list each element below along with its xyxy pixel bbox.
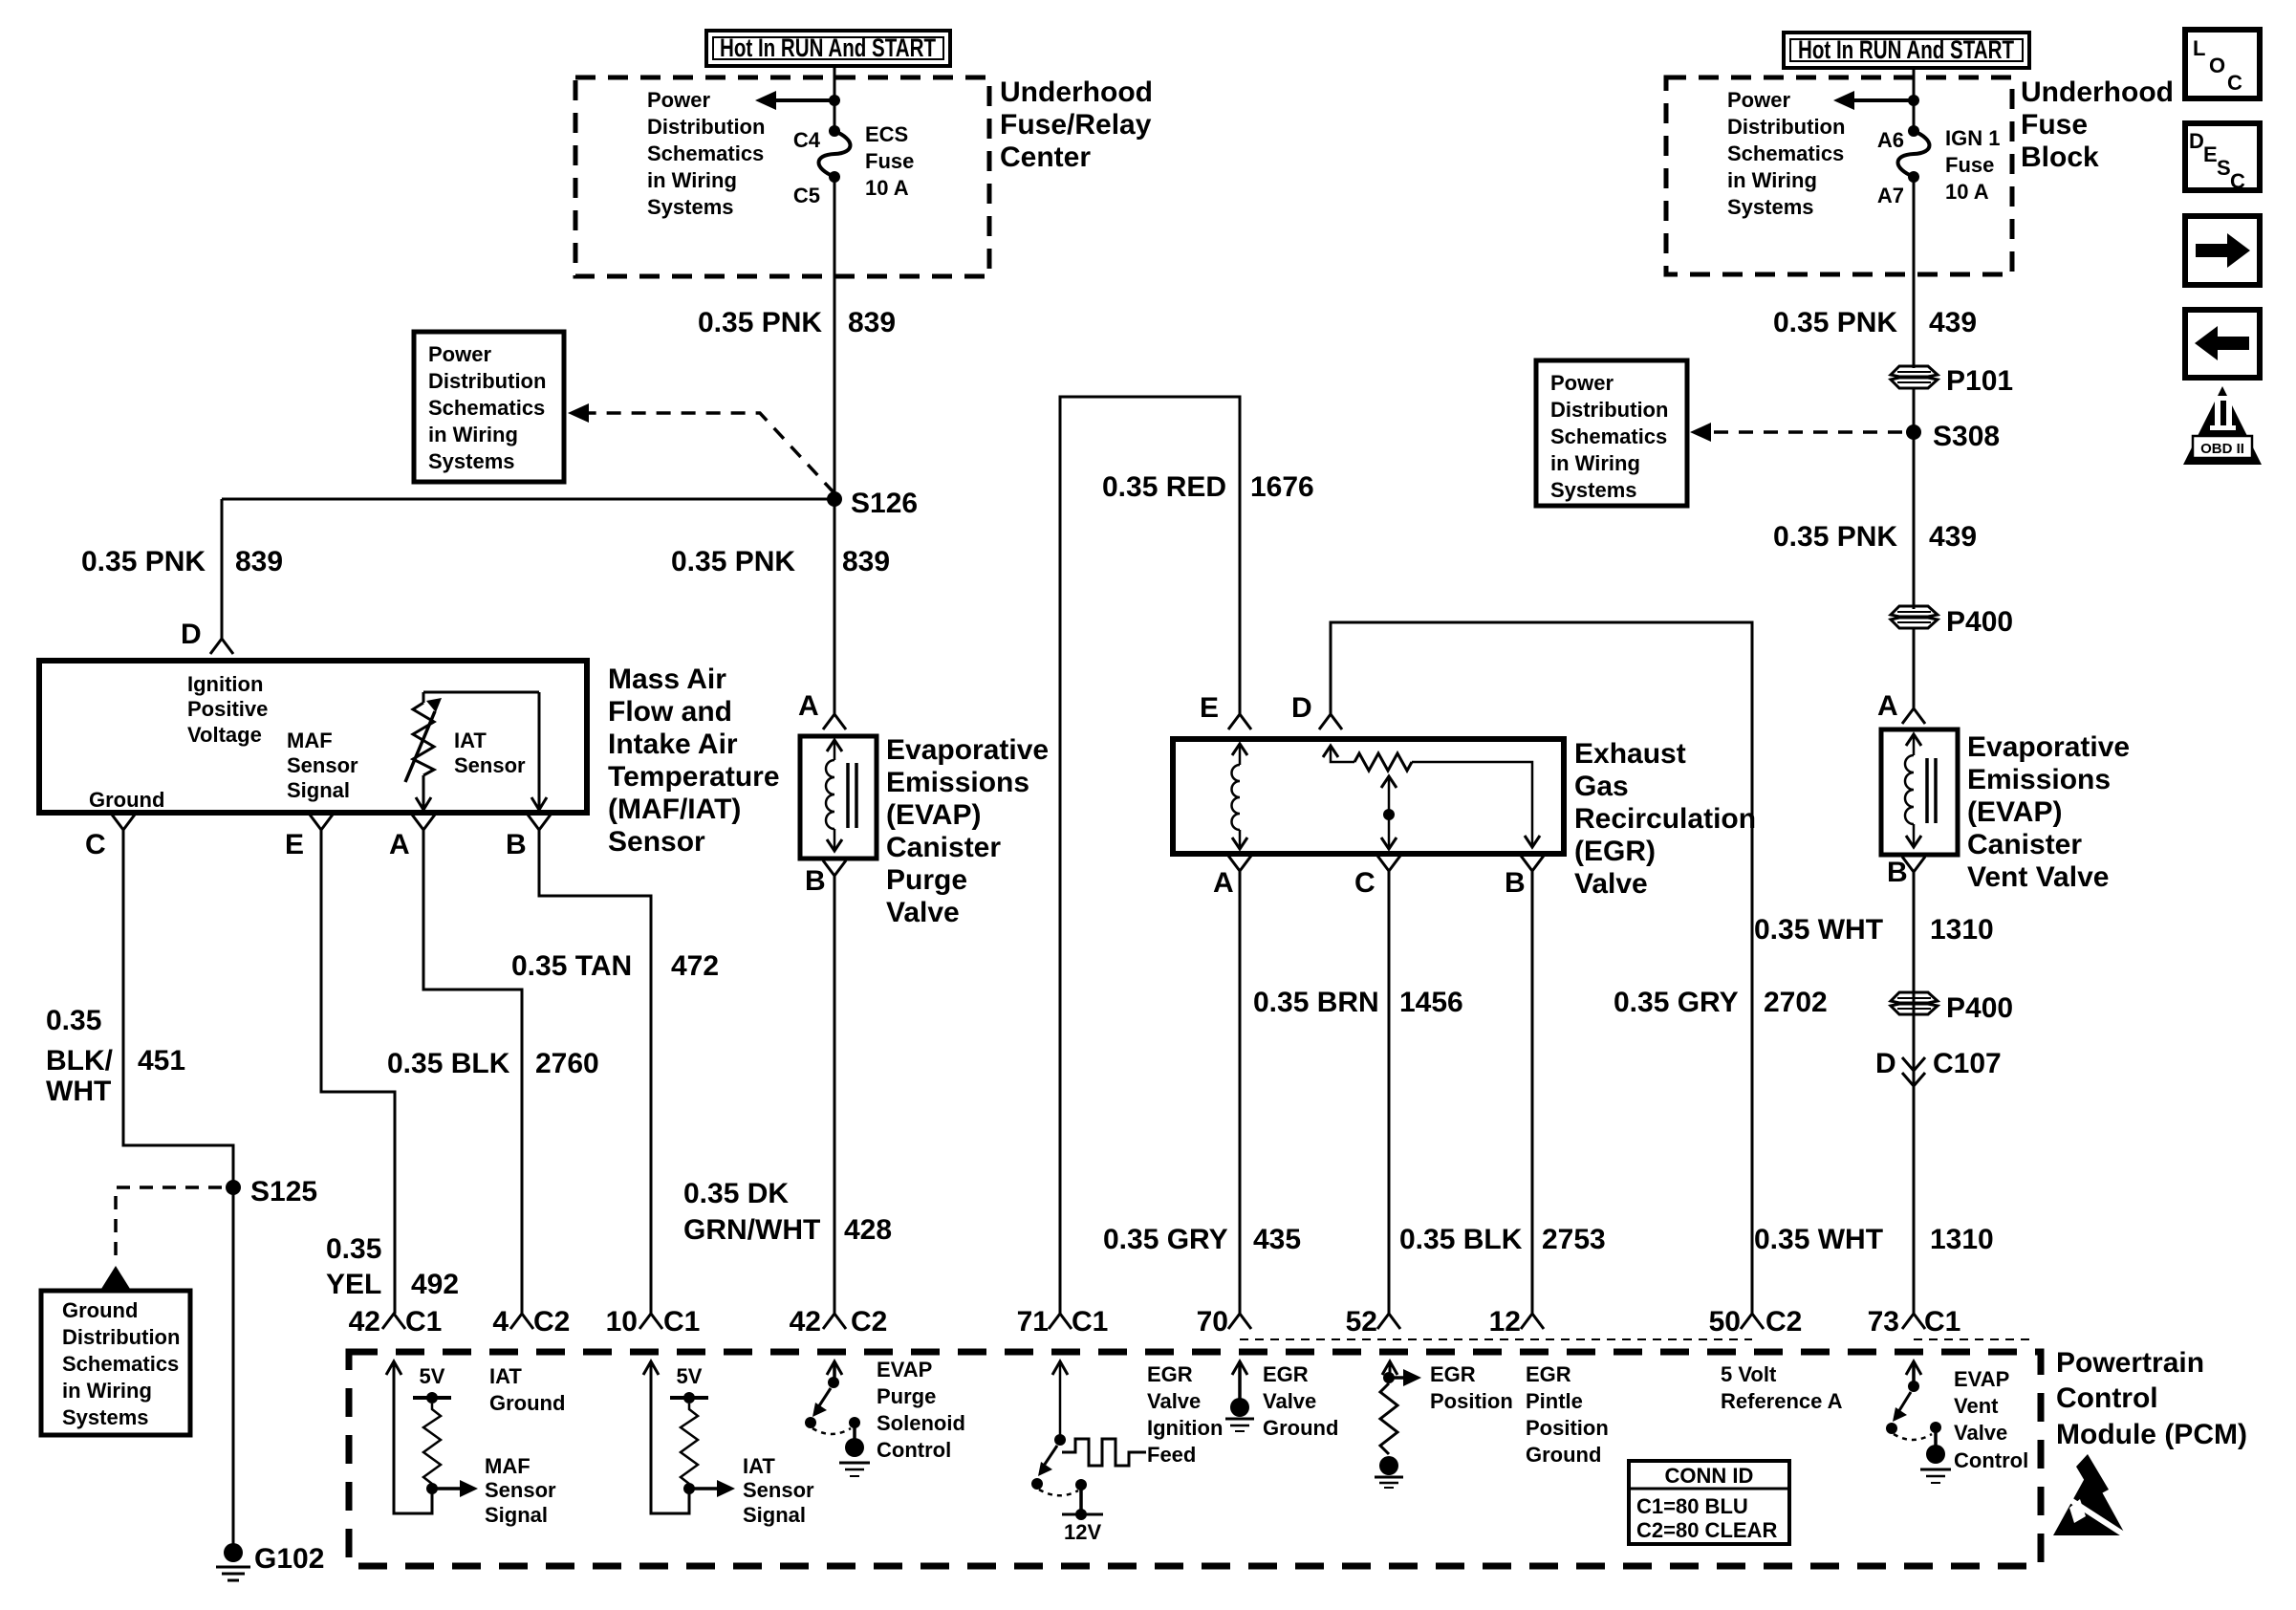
svg-text:Fuse/Relay: Fuse/Relay: [1000, 109, 1152, 141]
svg-text:Positive: Positive: [187, 697, 268, 721]
pin 50 C2: [1709, 1306, 1803, 1338]
svg-text:Systems: Systems: [428, 449, 515, 473]
svg-text:B: B: [506, 829, 527, 860]
svg-text:Emissions: Emissions: [886, 767, 1029, 798]
svg-text:0.35 PNK: 0.35 PNK: [698, 307, 822, 338]
svg-text:Systems: Systems: [62, 1405, 149, 1429]
svg-text:Intake Air: Intake Air: [608, 729, 738, 760]
label Evaporative Emissions (EVAP) Canister Purge Valve: [886, 734, 1049, 928]
svg-text:C2: C2: [1765, 1306, 1802, 1338]
svg-text:Temperature: Temperature: [608, 761, 780, 793]
dashed reference arrow from S308 to box: [1690, 423, 1902, 442]
EGR pintle position ground label (pin 12): [1526, 1362, 1609, 1467]
svg-text:0.35 GRY: 0.35 GRY: [1103, 1224, 1228, 1255]
wire EGR A to PCM 70: [1239, 871, 1242, 1314]
svg-text:P400: P400: [1946, 992, 2013, 1024]
pin 70: [1197, 1306, 1251, 1338]
solenoid coil: [826, 740, 856, 851]
svg-text:Control: Control: [1954, 1448, 2028, 1472]
svg-text:0.35: 0.35: [326, 1233, 381, 1265]
svg-text:G102: G102: [254, 1543, 324, 1575]
connector P101: [1891, 365, 2013, 397]
svg-text:CONN ID: CONN ID: [1665, 1464, 1754, 1488]
OBD II icon: [2183, 386, 2262, 465]
fuse IGN1 A6/A7: [1877, 125, 2001, 207]
svg-text:C1: C1: [405, 1306, 442, 1338]
pin 42 C2: [790, 1306, 888, 1338]
MAF/IAT sensor box: [39, 661, 587, 813]
svg-text:Ground: Ground: [89, 788, 164, 812]
svg-text:Solenoid: Solenoid: [877, 1411, 965, 1435]
svg-text:0.35 PNK: 0.35 PNK: [671, 546, 795, 577]
DESC icon: [2185, 123, 2260, 193]
pin B fork (vent valve): [1887, 857, 1925, 888]
CONN ID table: [1629, 1461, 1789, 1544]
label Underhood Fuse Block: [2021, 76, 2174, 173]
svg-text:Signal: Signal: [485, 1503, 548, 1527]
EVAP purge valve box: [800, 736, 877, 859]
svg-text:in Wiring: in Wiring: [428, 423, 518, 446]
svg-text:Schematics: Schematics: [1550, 424, 1667, 448]
svg-text:C1: C1: [1924, 1306, 1960, 1338]
EGR valve ground (pin 70): [1225, 1361, 1338, 1440]
vent valve solenoid coil: [1905, 734, 1936, 847]
svg-text:42: 42: [349, 1306, 380, 1338]
Power Distribution Schematics note (left fuse box): [647, 88, 765, 219]
Power Distribution Schematics box (right, solid): [1536, 360, 1687, 506]
svg-text:EGR: EGR: [1263, 1362, 1309, 1386]
ESD warning symbol: [2053, 1454, 2130, 1538]
pin A fork: [389, 815, 435, 860]
svg-text:C2: C2: [533, 1306, 570, 1338]
svg-text:Systems: Systems: [647, 195, 734, 219]
pin 52: [1346, 1306, 1400, 1338]
svg-text:A7: A7: [1877, 184, 1904, 207]
IAT ground label (pin 4 C2): [489, 1364, 565, 1415]
svg-text:E: E: [2203, 142, 2218, 166]
svg-text:C107: C107: [1933, 1048, 2002, 1079]
label Powertrain Control Module (PCM): [2056, 1347, 2247, 1450]
label 0.35 BLK/WHT 451: [46, 1005, 185, 1107]
svg-text:Emissions: Emissions: [1967, 764, 2111, 795]
svg-text:439: 439: [1929, 307, 1977, 338]
svg-text:Powertrain: Powertrain: [2056, 1347, 2204, 1379]
svg-text:Schematics: Schematics: [1727, 141, 1844, 165]
pin E chevron: [1200, 692, 1251, 729]
pin 4 C2: [492, 1306, 570, 1338]
pin B fork: [805, 860, 846, 897]
wire label 0.35 PNK 839 (below S126): [671, 546, 890, 577]
svg-text:4: 4: [492, 1306, 509, 1338]
svg-text:EGR: EGR: [1147, 1362, 1193, 1386]
svg-text:(EVAP): (EVAP): [1967, 796, 2062, 828]
pin 73 C1: [1868, 1306, 1961, 1338]
svg-text:E: E: [285, 829, 304, 860]
svg-text:Signal: Signal: [743, 1503, 806, 1527]
pin B fork: [506, 815, 551, 860]
svg-text:Ignition: Ignition: [187, 672, 263, 696]
svg-text:Ground: Ground: [489, 1391, 565, 1415]
svg-text:S126: S126: [851, 488, 918, 519]
svg-text:D: D: [2189, 129, 2204, 153]
pin 42 C1: [349, 1306, 443, 1338]
EGR valve box: [1173, 739, 1564, 854]
svg-text:Canister: Canister: [886, 832, 1001, 863]
svg-text:Control: Control: [2056, 1382, 2158, 1414]
svg-text:A: A: [389, 829, 410, 860]
svg-text:0.35 TAN: 0.35 TAN: [511, 950, 632, 982]
svg-text:492: 492: [411, 1269, 459, 1300]
svg-text:Sensor: Sensor: [485, 1478, 556, 1502]
svg-text:IGN 1: IGN 1: [1945, 126, 2000, 150]
pin A chevron: [798, 690, 846, 729]
svg-text:L: L: [2193, 36, 2205, 60]
EVAP purge solenoid driver (pin 42 C2): [805, 1358, 965, 1476]
svg-text:Reference A: Reference A: [1721, 1389, 1843, 1413]
svg-text:Systems: Systems: [1727, 195, 1814, 219]
Underhood Fuse/Relay Center dashed box: [575, 77, 989, 276]
Underhood Fuse Block dashed box: [1666, 77, 2012, 274]
svg-text:Distribution: Distribution: [1550, 398, 1668, 422]
svg-text:71: 71: [1017, 1306, 1049, 1338]
svg-text:Purge: Purge: [877, 1384, 936, 1408]
svg-text:Exhaust: Exhaust: [1574, 738, 1686, 770]
label 0.35 WHT 1310 (upper): [1754, 914, 1994, 946]
label 0.35 GRY 435: [1103, 1224, 1301, 1255]
svg-text:0.35 PNK: 0.35 PNK: [1773, 307, 1897, 338]
svg-text:C4: C4: [793, 128, 821, 152]
Power Distribution Schematics note (right fuse box): [1727, 88, 1845, 219]
svg-text:in Wiring: in Wiring: [1727, 168, 1817, 192]
svg-text:MAF: MAF: [287, 729, 333, 752]
EVAP vent valve driver (pin 73 C1): [1886, 1361, 2028, 1483]
5 volt reference label (pin 50 C2): [1721, 1362, 1843, 1413]
svg-text:C1: C1: [1072, 1306, 1108, 1338]
EGR ignition feed switch (pin 71 C1): [1031, 1361, 1223, 1544]
svg-text:Block: Block: [2021, 141, 2099, 173]
svg-text:Gas: Gas: [1574, 771, 1629, 802]
svg-text:D: D: [1291, 692, 1312, 724]
svg-text:1310: 1310: [1930, 1224, 1994, 1255]
svg-text:0.35: 0.35: [46, 1005, 101, 1036]
label 0.35 BLK 2753: [1399, 1224, 1606, 1255]
svg-text:EVAP: EVAP: [877, 1358, 932, 1382]
svg-text:Fuse: Fuse: [1945, 153, 1994, 177]
wire B to PCM 42 C2: [834, 876, 836, 1314]
svg-text:Recirculation: Recirculation: [1574, 803, 1756, 835]
svg-text:12: 12: [1489, 1306, 1521, 1338]
svg-text:Fuse: Fuse: [2021, 109, 2088, 141]
svg-text:Hot In RUN And START: Hot In RUN And START: [720, 33, 936, 62]
svg-text:10 A: 10 A: [1945, 180, 1989, 204]
svg-text:Underhood: Underhood: [1000, 76, 1153, 108]
svg-text:C5: C5: [793, 184, 820, 207]
Hot In RUN And START box (left): [706, 31, 950, 66]
svg-text:0.35 BLK: 0.35 BLK: [387, 1048, 510, 1079]
svg-text:C: C: [2227, 71, 2242, 95]
svg-text:Evaporative: Evaporative: [886, 734, 1049, 766]
svg-text:0.35 DK: 0.35 DK: [683, 1178, 789, 1209]
svg-text:12V: 12V: [1064, 1520, 1101, 1544]
svg-text:EGR: EGR: [1430, 1362, 1476, 1386]
svg-text:A: A: [1877, 690, 1898, 722]
svg-text:Valve: Valve: [1574, 868, 1648, 900]
svg-text:Power: Power: [1727, 88, 1790, 112]
wire P400 to vent valve A: [1913, 628, 1916, 708]
svg-text:Sensor: Sensor: [454, 753, 526, 777]
svg-text:S: S: [2217, 156, 2231, 180]
pin C fork: [1354, 856, 1400, 899]
svg-text:Position: Position: [1526, 1416, 1609, 1440]
svg-text:Schematics: Schematics: [62, 1352, 179, 1376]
svg-text:P400: P400: [1946, 606, 2013, 638]
pin 71 C1: [1017, 1306, 1109, 1338]
svg-text:1676: 1676: [1250, 471, 1314, 503]
wire EGR B to PCM 12: [1531, 871, 1534, 1314]
EGR pintle position potentiometer: [1323, 746, 1540, 849]
pin E fork: [285, 815, 333, 860]
svg-text:Distribution: Distribution: [62, 1325, 180, 1349]
wire from Hot box into fuse (right): [1913, 68, 1916, 128]
Ground Distribution Schematics box: [41, 1291, 190, 1435]
svg-text:5V: 5V: [420, 1364, 445, 1388]
wire label 0.35 PNK 839 (D branch): [81, 546, 283, 577]
pin 10 C1: [606, 1306, 701, 1338]
svg-text:10 A: 10 A: [865, 176, 909, 200]
svg-text:451: 451: [138, 1045, 185, 1077]
splice S126: [827, 488, 918, 519]
svg-text:428: 428: [844, 1214, 892, 1246]
back arrow icon: [2185, 310, 2260, 378]
wire C to S125/G102: [123, 830, 233, 1553]
IAT signal circuit (pin 10 C1): [643, 1361, 814, 1527]
svg-text:WHT: WHT: [46, 1076, 111, 1107]
svg-text:B: B: [805, 865, 826, 897]
svg-text:Underhood: Underhood: [2021, 76, 2174, 108]
wire EGR ignition feed RED loop (PCM 71 C1 to EGR E): [1060, 397, 1240, 1314]
svg-text:Distribution: Distribution: [1727, 115, 1845, 139]
svg-text:C: C: [1354, 867, 1375, 899]
svg-text:B: B: [1505, 867, 1526, 899]
svg-text:5 Volt: 5 Volt: [1721, 1362, 1777, 1386]
PCM dashed box: [349, 1352, 2041, 1566]
svg-text:IAT: IAT: [489, 1364, 522, 1388]
svg-text:0.35 PNK: 0.35 PNK: [81, 546, 206, 577]
svg-text:0.35 WHT: 0.35 WHT: [1754, 914, 1883, 946]
svg-text:O: O: [2209, 54, 2225, 77]
Hot In RUN And START box (right): [1784, 33, 2029, 68]
svg-text:Purge: Purge: [886, 864, 967, 896]
label 0.35 DK GRN/WHT 428: [683, 1178, 892, 1246]
svg-text:Sensor: Sensor: [743, 1478, 814, 1502]
EGR solenoid coil E-A: [1232, 744, 1248, 849]
EGR position sense (pin 52): [1375, 1361, 1513, 1488]
IAT sensor thermistor: [405, 692, 547, 810]
svg-text:472: 472: [671, 950, 719, 982]
label 0.35 GRY 2702: [1614, 987, 1828, 1018]
svg-text:EVAP: EVAP: [1954, 1367, 2009, 1391]
wire A to PCM 4 C2: [423, 830, 522, 1314]
svg-text:5V: 5V: [677, 1364, 703, 1388]
svg-text:A6: A6: [1877, 128, 1904, 152]
svg-text:(MAF/IAT): (MAF/IAT): [608, 794, 741, 825]
svg-text:A: A: [798, 690, 819, 722]
connector P400 (lower): [1891, 992, 2013, 1024]
wire EGR D to PCM 50 C2 (5V ref loop): [1331, 622, 1752, 1314]
svg-text:10: 10: [606, 1306, 638, 1338]
wire E to PCM 42 C1: [321, 830, 395, 1314]
svg-text:Valve: Valve: [1263, 1389, 1316, 1413]
wire vent B down to PCM 73 C1: [1913, 872, 1916, 1314]
svg-text:Vent: Vent: [1954, 1394, 1999, 1418]
svg-text:0.35 GRY: 0.35 GRY: [1614, 987, 1739, 1018]
forward arrow icon: [2185, 216, 2260, 285]
svg-text:0.35 BRN: 0.35 BRN: [1253, 987, 1379, 1018]
svg-text:Hot In RUN And START: Hot In RUN And START: [1798, 35, 2014, 64]
svg-text:Valve: Valve: [1954, 1421, 2007, 1445]
pin 12: [1489, 1306, 1544, 1338]
svg-text:Feed: Feed: [1147, 1443, 1196, 1467]
label Exhaust Gas Recirculation (EGR) Valve: [1574, 738, 1756, 900]
svg-text:73: 73: [1868, 1306, 1899, 1338]
svg-text:D: D: [1875, 1048, 1896, 1079]
svg-text:2760: 2760: [535, 1048, 599, 1079]
dashed reference arrow from S126 to box: [568, 403, 834, 493]
wire fuse output down to S126 and purge valve: [834, 182, 836, 714]
svg-text:E: E: [1200, 692, 1219, 724]
svg-text:Mass Air: Mass Air: [608, 664, 726, 695]
internal labels: [89, 672, 526, 812]
label 0.35 PNK 439 (below S308): [1773, 521, 1977, 553]
svg-text:Ground: Ground: [62, 1298, 138, 1322]
svg-text:Canister: Canister: [1967, 829, 2082, 860]
svg-text:Power: Power: [647, 88, 710, 112]
splice S308: [1906, 421, 2000, 452]
svg-text:0.35 WHT: 0.35 WHT: [1754, 1224, 1883, 1255]
svg-text:Voltage: Voltage: [187, 723, 262, 747]
svg-text:Module (PCM): Module (PCM): [2056, 1419, 2247, 1450]
wire label 0.35 PNK 439 (top): [1773, 307, 1977, 338]
arrow to power distribution (left fuse box): [755, 91, 840, 110]
svg-text:MAF: MAF: [485, 1454, 531, 1478]
pin D chevron: [1291, 692, 1342, 729]
LOC icon: [2185, 30, 2260, 98]
label Evaporative Emissions (EVAP) Canister Vent Valve: [1967, 731, 2130, 893]
svg-text:Ground: Ground: [1526, 1443, 1601, 1467]
svg-text:Valve: Valve: [1147, 1389, 1201, 1413]
dashed reference arrow from S125 to ground box: [101, 1187, 222, 1289]
pin A chevron (vent valve): [1877, 690, 1925, 724]
svg-text:BLK/: BLK/: [46, 1045, 114, 1077]
svg-text:C2: C2: [851, 1306, 887, 1338]
svg-text:A: A: [1213, 867, 1234, 899]
svg-text:1310: 1310: [1930, 914, 1994, 946]
svg-text:C: C: [2230, 169, 2245, 193]
svg-text:IAT: IAT: [743, 1454, 775, 1478]
svg-text:Schematics: Schematics: [428, 396, 545, 420]
svg-text:Position: Position: [1430, 1389, 1513, 1413]
svg-text:GRN/WHT: GRN/WHT: [683, 1214, 820, 1246]
svg-text:(EVAP): (EVAP): [886, 799, 981, 831]
svg-text:Pintle: Pintle: [1526, 1389, 1583, 1413]
fuse ECS C4/C5: [793, 122, 914, 207]
pin B fork: [1505, 856, 1544, 899]
svg-text:C2=80 CLEAR: C2=80 CLEAR: [1636, 1518, 1777, 1542]
svg-text:C: C: [85, 829, 106, 860]
svg-text:Schematics: Schematics: [647, 141, 764, 165]
svg-text:EGR: EGR: [1526, 1362, 1571, 1386]
wire from Hot box into fuse: [834, 66, 836, 128]
svg-text:0.35 BLK: 0.35 BLK: [1399, 1224, 1523, 1255]
svg-text:2753: 2753: [1542, 1224, 1606, 1255]
svg-text:Systems: Systems: [1550, 478, 1637, 502]
pin C fork: [85, 815, 135, 860]
label 0.35 YEL 492: [326, 1233, 459, 1300]
svg-text:1456: 1456: [1399, 987, 1463, 1018]
svg-text:Vent Valve: Vent Valve: [1967, 861, 2109, 893]
svg-text:Valve: Valve: [886, 897, 960, 928]
label Mass Air Flow ...: [608, 664, 780, 858]
EVAP canister vent valve box: [1881, 729, 1958, 855]
svg-text:2702: 2702: [1764, 987, 1828, 1018]
svg-text:Control: Control: [877, 1438, 951, 1462]
svg-text:Center: Center: [1000, 141, 1091, 173]
svg-text:Distribution: Distribution: [647, 115, 765, 139]
wire label 0.35 PNK 839 (top): [698, 307, 896, 338]
svg-text:839: 839: [842, 546, 890, 577]
svg-text:439: 439: [1929, 521, 1977, 553]
svg-text:50: 50: [1709, 1306, 1741, 1338]
wire B to PCM 10 C1: [539, 830, 651, 1314]
svg-text:Sensor: Sensor: [287, 753, 358, 777]
svg-text:70: 70: [1197, 1306, 1228, 1338]
svg-text:in Wiring: in Wiring: [62, 1379, 152, 1403]
wire P101 to S308 to P400: [1913, 388, 1916, 609]
svg-text:in Wiring: in Wiring: [1550, 451, 1640, 475]
svg-text:ECS: ECS: [865, 122, 908, 146]
svg-text:839: 839: [235, 546, 283, 577]
splice S125: [226, 1176, 317, 1207]
svg-text:52: 52: [1346, 1306, 1377, 1338]
svg-text:0.35 PNK: 0.35 PNK: [1773, 521, 1897, 553]
svg-text:Sensor: Sensor: [608, 826, 705, 858]
svg-text:C1=80 BLU: C1=80 BLU: [1636, 1494, 1748, 1518]
svg-text:YEL: YEL: [326, 1269, 381, 1300]
svg-text:D: D: [181, 619, 202, 650]
ground G102: [216, 1543, 324, 1580]
svg-text:Fuse: Fuse: [865, 149, 914, 173]
label 0.35 TAN 472: [511, 950, 719, 982]
svg-text:Distribution: Distribution: [428, 369, 546, 393]
thin connector dashes linking pins 70-52-12-50: [1240, 1338, 1752, 1340]
label 0.35 BLK 2760: [387, 1048, 599, 1079]
svg-text:(EGR): (EGR): [1574, 836, 1656, 867]
pin A fork: [1213, 856, 1251, 899]
Power Distribution Schematics box (mid-left, solid): [414, 332, 564, 482]
svg-text:Evaporative: Evaporative: [1967, 731, 2130, 763]
wire EGR C to PCM 52: [1388, 871, 1391, 1314]
svg-text:Power: Power: [1550, 371, 1614, 395]
svg-text:in Wiring: in Wiring: [647, 168, 737, 192]
svg-text:Signal: Signal: [287, 778, 350, 802]
svg-text:42: 42: [790, 1306, 821, 1338]
svg-text:839: 839: [848, 307, 896, 338]
arrow to power distribution (right fuse box): [1833, 91, 1919, 110]
svg-text:S125: S125: [250, 1176, 317, 1207]
label Underhood Fuse/Relay Center: [1000, 76, 1153, 173]
wire fuse output down to P101: [1913, 182, 1916, 368]
thin connector dashes right of pin 73: [1914, 1338, 2036, 1340]
